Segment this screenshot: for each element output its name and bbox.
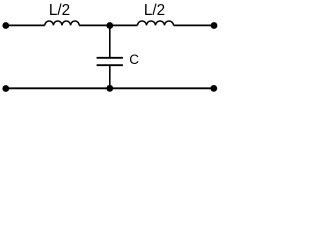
wire top rail between left inductor and junction [79, 24, 110, 26]
wire top rail left segment [6, 24, 45, 26]
junction node top [106, 22, 113, 29]
capacitor C top plate [97, 57, 123, 59]
junction node bottom [106, 85, 113, 92]
inductor L/2 right [138, 21, 174, 25]
inductor L/2 left [45, 21, 79, 25]
capacitor C bottom plate [97, 64, 123, 66]
wire top rail right segment [174, 24, 215, 26]
terminal dot top-left [2, 22, 9, 29]
svg-text:C: C [129, 52, 139, 67]
terminal dot bottom-right [210, 85, 217, 92]
wire top rail between junction and right inductor [110, 24, 138, 26]
wire capacitor upper lead [109, 25, 111, 57]
terminal dot bottom-left [2, 85, 9, 92]
wire bottom rail [6, 87, 214, 89]
svg-text:L/2: L/2 [49, 2, 70, 19]
svg-text:L/2: L/2 [144, 2, 165, 19]
wire capacitor lower lead [109, 65, 111, 88]
terminal dot top-right [211, 22, 218, 29]
